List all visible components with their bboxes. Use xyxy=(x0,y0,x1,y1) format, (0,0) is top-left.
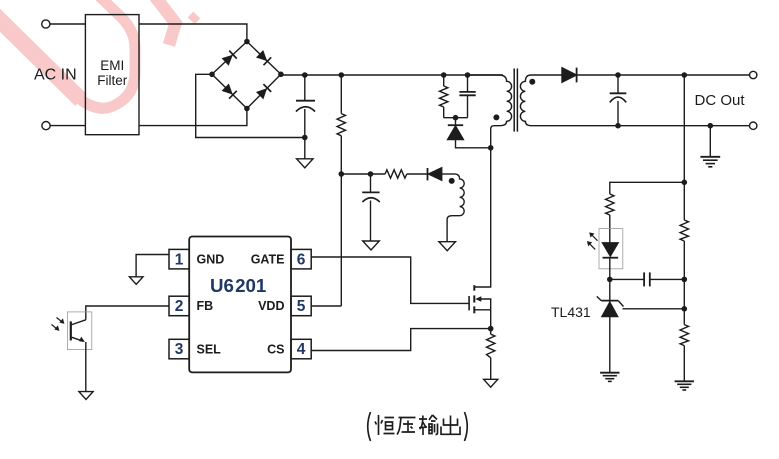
wire xyxy=(139,109,247,126)
compensation capacitor C5 xyxy=(610,278,644,280)
wire pin5 riser xyxy=(340,174,342,306)
wire xyxy=(281,73,503,76)
svg-text:Filter: Filter xyxy=(97,73,128,88)
terminal DC Out + xyxy=(750,71,757,78)
main wires and components drawn in black xyxy=(42,15,757,400)
bridge diode BD1 xyxy=(221,51,236,66)
svg-text:AC IN: AC IN xyxy=(34,67,77,84)
ground pin1 xyxy=(129,277,143,285)
bridge diode BD2 xyxy=(256,50,271,65)
svg-text:4: 4 xyxy=(297,341,306,358)
svg-text:6: 6 xyxy=(297,251,306,268)
VDD diode D2 xyxy=(427,168,429,180)
optocoupler LED package box xyxy=(599,229,623,269)
pin 6 box xyxy=(291,249,311,269)
paren left xyxy=(368,412,371,441)
bulk capacitor C1 xyxy=(304,75,306,100)
wire secondary top rail xyxy=(531,74,562,76)
paren right xyxy=(465,412,468,441)
optocoupler phototransistor Q1 xyxy=(67,312,91,350)
svg-text:GATE: GATE xyxy=(251,253,285,267)
hanzi shu xyxy=(419,415,438,435)
pin 3 box xyxy=(169,339,189,359)
transformer core xyxy=(514,69,517,132)
secondary polarity dot xyxy=(529,79,535,85)
bridge diode BD3 xyxy=(221,83,236,98)
divider resistor R6 xyxy=(683,309,685,381)
startup resistor R1 xyxy=(340,75,342,174)
terminal AC IN bottom xyxy=(42,122,50,130)
pin 5 box xyxy=(291,296,311,316)
optocoupler LED D5 xyxy=(603,243,619,256)
output diode D4 xyxy=(562,68,576,82)
wire VDD node xyxy=(341,173,370,175)
EMI filter box xyxy=(85,15,139,135)
watermark logo stroke U xyxy=(0,0,198,108)
pin 1 box xyxy=(169,249,189,269)
bridge diode BD4 xyxy=(256,84,271,99)
aux winding xyxy=(447,174,464,242)
ground xyxy=(439,242,456,251)
wire pin5 riser join xyxy=(311,305,341,307)
hanzi heng xyxy=(375,415,395,435)
hanzi ya xyxy=(397,418,416,435)
hanzi chu xyxy=(441,416,460,435)
RCD snubber resistor R3 xyxy=(443,75,445,118)
bridge rectifier frame xyxy=(212,42,281,109)
svg-text:CS: CS xyxy=(267,342,284,356)
wire pin1 to ground xyxy=(136,255,169,277)
wire xyxy=(577,74,750,76)
svg-text:VDD: VDD xyxy=(258,299,284,313)
pin 4 box xyxy=(291,339,311,359)
wire snubber join xyxy=(444,117,468,119)
svg-text:SEL: SEL xyxy=(197,342,222,356)
transformer T1 secondary xyxy=(520,75,531,126)
RCD snubber capacitor C3 xyxy=(467,75,469,92)
wire to LED branch xyxy=(610,182,685,194)
wire xyxy=(196,74,305,137)
ground xyxy=(304,138,306,159)
pin 2 box xyxy=(169,296,189,316)
MOSFET Q2 xyxy=(468,296,470,310)
svg-text:GND: GND xyxy=(197,253,225,267)
transformer T1 primary xyxy=(468,75,512,148)
primary polarity dot xyxy=(493,114,499,120)
LED emission arrows xyxy=(591,234,598,241)
ground divider earth xyxy=(675,380,694,382)
ground opto xyxy=(79,392,93,400)
divider resistor R5 xyxy=(680,220,688,241)
TL431 U2 xyxy=(609,279,611,302)
terminal AC IN top xyxy=(42,20,50,28)
U6201 IC body U1 xyxy=(189,237,291,373)
wire divider chain top xyxy=(683,182,685,308)
wire secondary bottom rail xyxy=(531,125,750,127)
VDD series resistor R2 xyxy=(371,173,428,175)
svg-text:TL431: TL431 xyxy=(551,304,591,320)
wire xyxy=(139,24,247,42)
ground sense xyxy=(484,379,498,387)
wire pin2 to opto xyxy=(86,306,169,320)
wire xyxy=(50,23,85,25)
ground DC output earth xyxy=(709,126,711,157)
output capacitor C4 xyxy=(617,75,619,93)
aux polarity dot xyxy=(449,178,455,184)
ground TL431 earth xyxy=(600,372,619,374)
VDD capacitor C2 xyxy=(370,174,372,192)
svg-text:EMI: EMI xyxy=(100,58,124,73)
svg-text:5: 5 xyxy=(297,298,306,315)
wire TL431 ref xyxy=(623,308,685,310)
wire feedback tap xyxy=(683,75,685,182)
sense resistor R7 xyxy=(490,329,492,380)
ground xyxy=(363,241,380,250)
wire xyxy=(50,125,85,127)
RCD snubber diode D3 xyxy=(455,118,457,125)
svg-text:1: 1 xyxy=(175,251,184,268)
svg-text:2: 2 xyxy=(175,298,184,315)
wire pin6 to gate xyxy=(311,257,469,303)
wire pin4 CS xyxy=(311,329,491,351)
svg-text:DC Out: DC Out xyxy=(695,92,746,109)
svg-text:FB: FB xyxy=(197,299,214,313)
LED series resistor R4 xyxy=(606,194,614,215)
caption (恒压输出) drawn as strokes xyxy=(368,412,468,441)
svg-text:3: 3 xyxy=(175,341,184,358)
terminal DC Out - xyxy=(750,122,757,129)
svg-text:U6201: U6201 xyxy=(210,275,266,296)
opto light arrows xyxy=(57,318,63,323)
